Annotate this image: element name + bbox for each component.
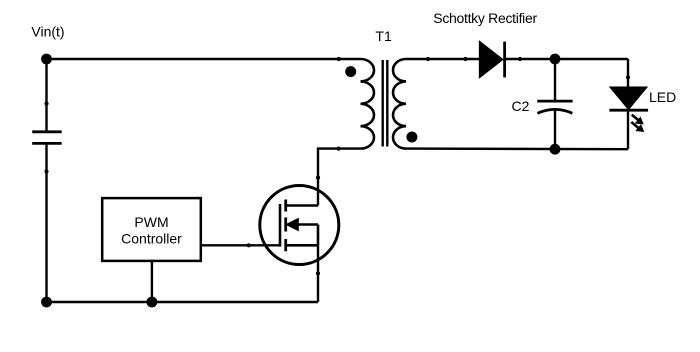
svg-text:PWM: PWM (134, 214, 168, 230)
transformer primary polarity dot (345, 66, 356, 77)
wire diode to LED corner (506, 58, 629, 60)
wire LED top lead (627, 59, 629, 87)
wire top rail (Vin node to transformer primary) (47, 58, 361, 60)
capacitor C2 curved plate (538, 109, 573, 113)
node Vin junction dot (41, 54, 52, 65)
svg-text:LED: LED (649, 89, 676, 105)
node bottom-left junction dot (41, 297, 52, 308)
svg-text:C2: C2 (512, 98, 530, 114)
LED D2 triangle (610, 87, 646, 109)
transformer secondary polarity dot (406, 132, 417, 143)
wire PWM output to gate (201, 244, 280, 246)
wire LED bottom lead (627, 110, 629, 149)
connection point dot on gate wire (247, 243, 251, 247)
transistor Q1 drain stub (286, 204, 318, 207)
svg-text:Controller: Controller (121, 231, 182, 247)
wire MOSFET source to bottom rail (317, 245, 319, 302)
connection point dot secondary top 2 (463, 57, 467, 61)
node PWM ground junction dot (147, 297, 158, 308)
LED D2 cathode bar (609, 109, 648, 112)
transistor Q1 source stub (286, 244, 318, 247)
transformer T1 core (383, 60, 388, 147)
wire primary bottom to MOSFET drain (318, 149, 361, 206)
wire secondary bottom rail (406, 147, 628, 150)
transistor Q1 channel segment middle (284, 218, 287, 232)
transistor Q1 channel segment top (284, 200, 287, 212)
wire bottom rail (47, 301, 319, 303)
transistor Q1 body arrow stub (296, 223, 318, 226)
connection point dot on source wire (316, 271, 320, 275)
diode D1 cathode bar (503, 42, 506, 78)
connection point dot on primary bottom wire (337, 147, 341, 151)
wire source/body vertical inside (317, 225, 320, 246)
svg-text:T1: T1 (375, 28, 392, 44)
wire left rail lower (capacitor to bottom rail) (45, 145, 47, 302)
connection point dot on top rail (337, 57, 341, 61)
wire secondary top to diode (406, 58, 480, 60)
transistor Q1 MOSFET body circle (260, 186, 339, 265)
connection point dot on left rail upper (44, 102, 48, 106)
wire left rail upper (Vin to input capacitor) (45, 59, 47, 131)
op-amp U1 PWM Controller box (102, 198, 201, 261)
LED D2 emission arrow 1 (632, 115, 644, 125)
connection point dot on drain wire (316, 176, 320, 180)
svg-text:Vin(t): Vin(t) (31, 23, 64, 39)
capacitor C2 top plate (537, 100, 572, 103)
wire PWM ground lead (151, 261, 153, 302)
node C2 top junction dot (550, 54, 561, 65)
connection point dot on LED lead (626, 75, 630, 79)
connection point dot secondary top 1 (426, 57, 430, 61)
svg-text:Schottky Rectifier: Schottky Rectifier (433, 10, 537, 26)
connection point dot after diode (518, 57, 522, 61)
wire C2 bottom lead (554, 111, 556, 150)
connection point dot on left rail lower (44, 169, 48, 173)
transformer T1 secondary winding (393, 59, 406, 149)
node C2 bottom junction dot (550, 144, 561, 155)
wire C2 top lead (554, 59, 556, 100)
LED D2 emission arrow 2 (631, 122, 644, 132)
capacitor C1 (input, unlabeled) (32, 132, 62, 144)
transistor Q1 channel segment bottom (284, 239, 287, 251)
diode D1 triangle (480, 42, 503, 78)
transistor Q1 gate bar (279, 204, 282, 247)
transformer T1 primary winding (360, 59, 374, 149)
transistor Q1 body arrow head (285, 218, 299, 232)
